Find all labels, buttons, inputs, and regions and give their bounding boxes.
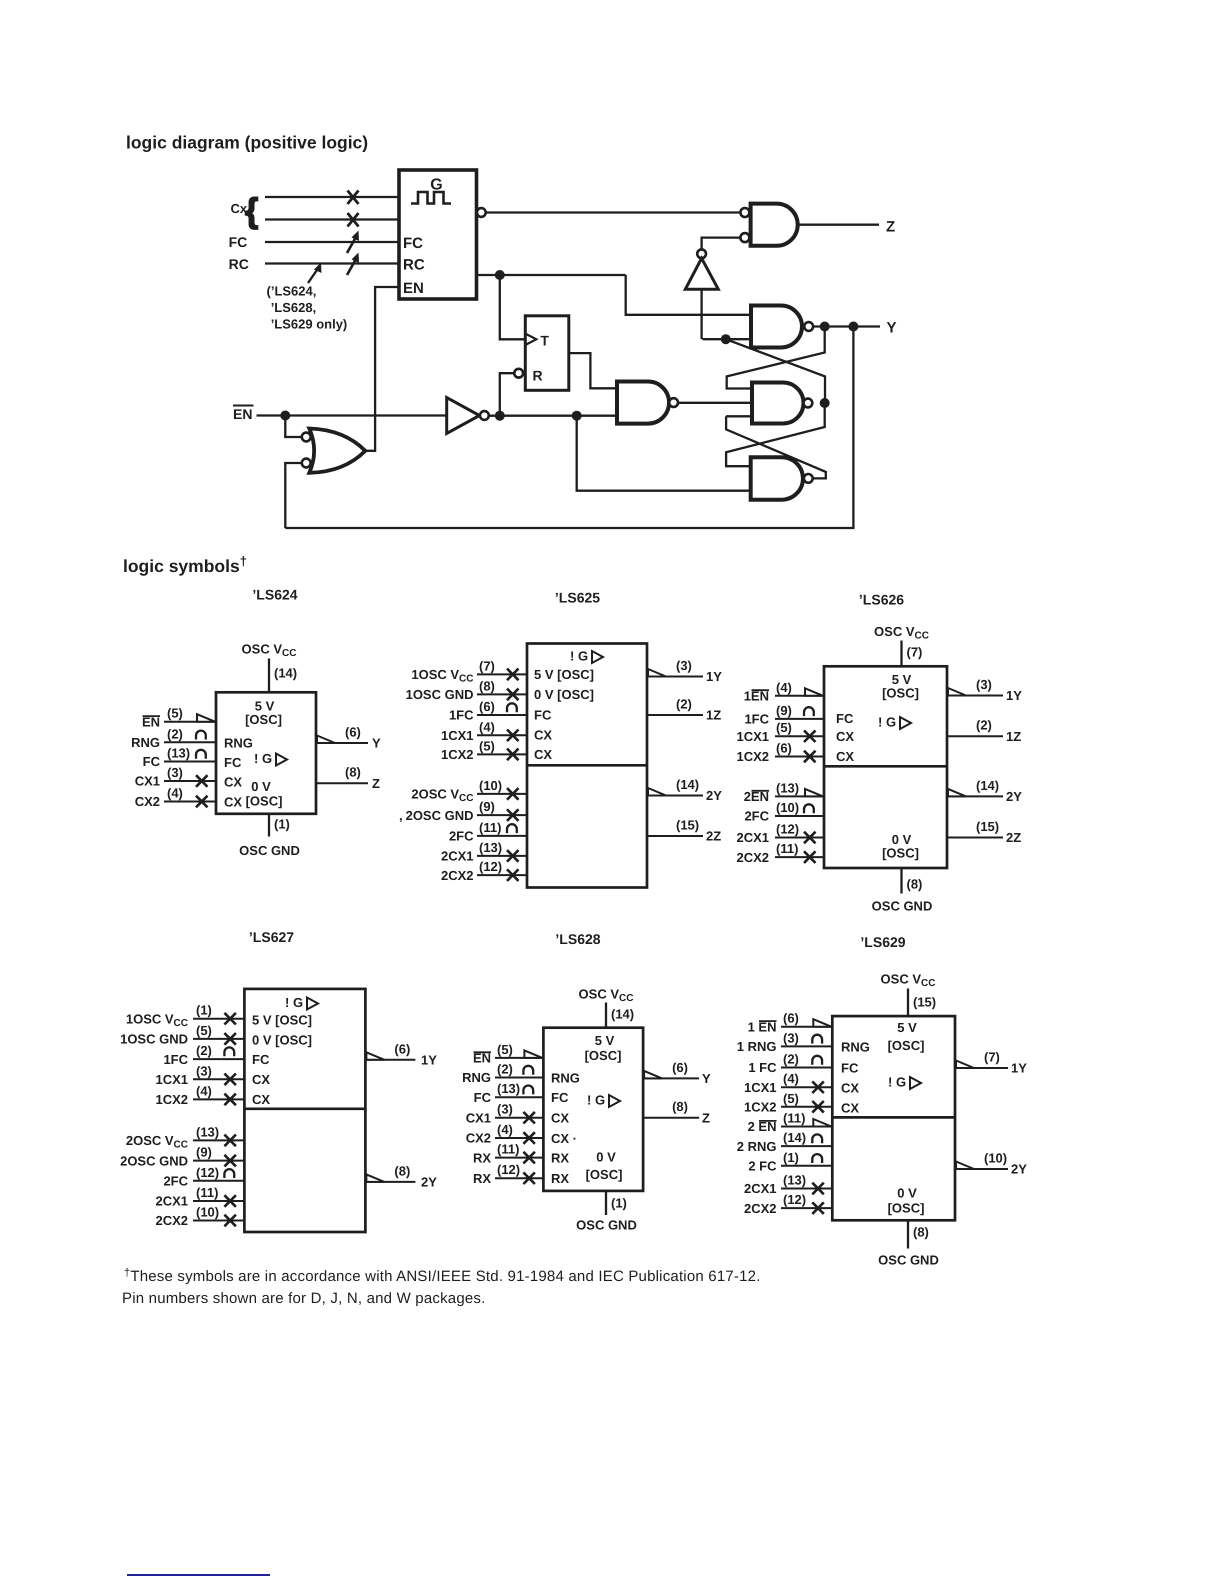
svg-text:(7): (7) [479,658,495,673]
svg-text:2CX1: 2CX1 [441,849,474,864]
svg-text:(13): (13) [783,1173,806,1188]
svg-text:! G: ! G [587,1093,605,1108]
svg-text:[OSC]: [OSC] [888,1201,925,1216]
LS627 divider [244,1107,365,1110]
svg-text:1CX2: 1CX2 [736,749,769,764]
wire Z output [798,224,879,226]
LS624 pin (13) FC [164,761,216,763]
NOR input 2 bubble [302,459,311,468]
svg-text:1CX1: 1CX1 [441,728,474,743]
svg-text:(6): (6) [345,725,361,740]
svg-text:R: R [533,368,543,384]
svg-text:’LS625: ’LS625 [555,590,600,606]
svg-text:5 V [OSC]: 5 V [OSC] [252,1013,312,1028]
svg-text:(2): (2) [783,1052,799,1067]
svg-text:CX: CX [551,1111,569,1126]
svg-text:(14): (14) [783,1130,806,1145]
svg-text:2FC: 2FC [449,829,474,844]
svg-text:[OSC]: [OSC] [882,846,919,861]
svg-text:(11): (11) [196,1185,218,1200]
LS628 pin (13) FC [495,1096,543,1098]
svg-text:2Y: 2Y [1006,789,1022,804]
logic symbol LS626 [736,592,1022,914]
svg-text:(5): (5) [776,720,792,735]
LS626 pin (14) output 2Y [947,795,1003,797]
svg-text:(10): (10) [196,1205,219,1220]
svg-text:1 RNG: 1 RNG [737,1039,777,1054]
wire FC [265,241,399,243]
LS624 box [216,692,316,814]
svg-text:RX: RX [473,1171,491,1186]
svg-text:(4): (4) [196,1083,212,1098]
node dot C (to bottom NAND) [572,411,582,421]
svg-text:(4): (4) [167,786,183,801]
wire EN [257,414,447,416]
LS626 pin (13) 2EN [775,795,824,797]
wire down to bottom NAND G6 input [577,416,751,491]
LS628 pin (5) EN [495,1057,543,1059]
LS627 pin (3) 1CX1 [193,1078,244,1080]
svg-text:(8): (8) [913,1225,929,1240]
wire NOR input 2 from feedback [285,463,301,528]
svg-text:1CX2: 1CX2 [744,1100,777,1115]
svg-text:[OSC]: [OSC] [586,1167,623,1182]
NAND gate G5 (middle) [752,383,804,424]
svg-text:CX: CX [836,749,854,764]
svg-text:(10): (10) [479,778,502,793]
LS627 pin (6) output 1Y [365,1059,415,1061]
logic symbol LS627 [120,929,437,1232]
LS626 OSC VCC pin [900,641,902,667]
svg-text:(2): (2) [167,726,183,741]
svg-text:(6): (6) [672,1060,688,1075]
node dot G5 out [820,398,830,408]
svg-text:2OSC GND: 2OSC GND [120,1153,188,1168]
wire Y output [813,325,880,327]
LS626 OSC GND pin [900,868,902,894]
svg-text:(5): (5) [783,1091,799,1106]
LS629 pin (7) output 1Y [955,1067,1008,1069]
svg-text:CX: CX [841,1101,859,1116]
svg-text:2CX1: 2CX1 [736,830,769,845]
page footer rule (blue) [127,1574,270,1576]
svg-text:2CX1: 2CX1 [744,1181,777,1196]
LS629 pin (14) 2 RNG [781,1145,832,1147]
svg-text:(15): (15) [976,819,999,834]
svg-text:RNG: RNG [841,1040,870,1055]
svg-text:0 V [OSC]: 0 V [OSC] [252,1033,312,1048]
svg-text:CX2: CX2 [135,794,160,809]
LS629 pin (13) 2CX1 [781,1188,832,1190]
LS626 pin (11) 2CX2 [775,856,824,858]
svg-text:(8): (8) [345,765,361,780]
LS627 pin (13) 2OSC V|CC [193,1139,244,1141]
VCO box U1 [399,170,477,299]
svg-text:1CX1: 1CX1 [736,729,769,744]
LS626 pin (15) output 2Z [947,837,1003,839]
LS626 pin (10) 2FC [775,815,824,817]
svg-text:1CX1: 1CX1 [155,1072,188,1087]
LS625 pin (10) 2OSC V|CC [477,793,527,795]
svg-text:FC: FC [474,1090,492,1105]
node dot Y2 [848,322,858,332]
svg-text:[OSC]: [OSC] [585,1048,622,1063]
svg-text:(3): (3) [783,1030,799,1045]
LS628 OSC VCC pin [605,1003,607,1028]
svg-text:(1): (1) [196,1003,212,1018]
svg-text:2FC: 2FC [744,809,769,824]
svg-text:Y: Y [887,320,897,337]
svg-text:(12): (12) [776,822,799,837]
svg-text:CX: CX [252,1092,270,1107]
svg-text:{: { [245,192,258,230]
LS629 divider [832,1116,955,1119]
svg-text:FC: FC [403,235,423,252]
NOR gate body [309,429,365,473]
LS624 pin (2) RNG [164,741,216,743]
LS624 pin (8) output Z [316,782,368,784]
svg-text:Z: Z [886,219,895,236]
LS624 OSC VCC pin [268,659,270,693]
svg-text:FC: FC [534,708,552,723]
svg-text:(14): (14) [274,666,297,681]
LS626 box [824,666,947,868]
svg-text:RC: RC [403,257,425,274]
node dot Y1 [820,322,830,332]
svg-text:(2): (2) [676,697,692,712]
svg-text:(3): (3) [976,677,992,692]
svg-text:(5): (5) [196,1023,212,1038]
svg-text:FC: FC [229,234,248,250]
LS627 pin (2) 1FC [193,1058,244,1060]
svg-text:2CX1: 2CX1 [155,1194,188,1209]
LS625 pin (7) 1OSC V|CC [477,673,527,675]
LS629 OSC GND pin [907,1220,909,1248]
svg-text:(12): (12) [783,1192,806,1207]
LS625 pin (2) output 1Z [647,714,703,716]
svg-text:(5): (5) [497,1042,513,1057]
svg-text:(6): (6) [394,1041,410,1056]
LS628 pin (3) CX1 [495,1117,543,1119]
wire G4 lower input [703,338,752,340]
LS626 pin (9) 1FC [775,718,824,720]
svg-text:logic diagram (positive logic): logic diagram (positive logic) [126,133,368,153]
svg-text:1FC: 1FC [163,1052,188,1067]
svg-text:CX1: CX1 [135,774,160,789]
LS625 divider [527,764,647,767]
LS625 pin (4) 1CX1 [477,734,527,736]
svg-text:(5): (5) [167,706,183,721]
LS628 box [543,1028,643,1191]
svg-text:(13): (13) [776,780,799,795]
LS626 pin (3) output 1Y [947,695,1003,697]
logic symbol LS625 [399,590,722,888]
LS624 pin (5) EN [164,721,216,723]
LS624 OSC GND pin [268,814,270,837]
svg-text:2Y: 2Y [1011,1162,1027,1177]
LS625 pin (8) 1OSC GND [477,693,527,695]
node dot B (R connect) [495,411,505,421]
LS627 pin (1) 1OSC V|CC [193,1018,244,1020]
svg-text:(14): (14) [611,1007,634,1022]
svg-text:(4): (4) [783,1071,799,1086]
LS626 divider [824,765,947,768]
wire Cx1 [265,196,399,198]
svg-text:1FC: 1FC [449,708,474,723]
node dot EN branch [280,411,290,421]
LS625 pin (15) output 2Z [647,835,703,837]
LS627 pin (5) 1OSC GND [193,1038,244,1040]
svg-text:(7): (7) [907,645,923,660]
LS625 box [527,644,647,888]
svg-text:[OSC]: [OSC] [888,1038,925,1053]
LS627 box [244,989,365,1232]
feedback wire from Y to NOR [285,327,853,529]
LS625 pin (13) 2CX1 [477,855,527,857]
svg-text:1CX2: 1CX2 [155,1092,188,1107]
svg-text:2CX2: 2CX2 [155,1213,188,1228]
svg-text:(2): (2) [196,1043,212,1058]
svg-text:5 V [OSC]: 5 V [OSC] [534,667,594,682]
svg-text:RNG: RNG [462,1070,491,1085]
LS625 pin (11) 2FC [477,835,527,837]
svg-text:! G: ! G [570,649,588,664]
svg-text:! G: ! G [254,751,272,766]
svg-text:(4): (4) [497,1122,513,1137]
node dot D on G4 lower input [721,334,731,344]
svg-text:(8): (8) [907,877,923,892]
LS626 pin (6) 1CX2 [775,756,824,758]
svg-text:RX: RX [551,1151,569,1166]
LS629 pin (2) 1 FC [781,1067,832,1069]
LS624 pin (3) CX1 [164,780,216,782]
square wave symbol [411,192,451,204]
svg-text:(1): (1) [783,1150,799,1165]
NAND gate G6 (bottom) [751,457,803,500]
wire inverted EN [489,415,617,417]
svg-text:0 V [OSC]: 0 V [OSC] [534,687,594,702]
svg-text:CX: CX [534,728,552,743]
svg-text:(3): (3) [167,765,183,780]
non-logic X mark on Cx1 [348,191,359,205]
analog slash on RC [347,259,356,275]
svg-text:! G: ! G [285,995,303,1010]
svg-text:RNG: RNG [131,735,160,750]
LS628 pin (2) RNG [495,1077,543,1079]
svg-text:0 V: 0 V [596,1150,616,1165]
svg-text:’LS628: ’LS628 [555,931,600,947]
svg-text:(3): (3) [676,658,692,673]
svg-text:[OSC]: [OSC] [246,794,283,809]
clock wedge on T input [525,334,536,345]
LS629 pin (4) 1CX1 [781,1086,832,1088]
svg-text:RNG: RNG [551,1071,580,1086]
svg-text:FC: FC [841,1061,859,1076]
svg-text:5 V: 5 V [897,1020,917,1035]
wire VCO EN-row output [477,274,626,276]
svg-text:(15): (15) [676,818,699,833]
svg-text:(14): (14) [676,777,699,792]
svg-text:2 FC: 2 FC [748,1159,777,1174]
LS626 pin (4) 1EN [775,695,824,697]
svg-text:RX: RX [473,1150,491,1165]
non-logic X mark on Cx2 [348,213,359,227]
LS629 pin (12) 2CX2 [781,1207,832,1209]
svg-text:FC: FC [551,1090,569,1105]
svg-text:2 RNG: 2 RNG [737,1139,777,1154]
svg-text:(13): (13) [479,840,502,855]
svg-text:1CX2: 1CX2 [441,747,474,762]
svg-text:(9): (9) [196,1145,212,1160]
svg-text:2FC: 2FC [163,1174,188,1189]
svg-text:(12): (12) [196,1165,219,1180]
svg-text:(13): (13) [167,746,190,761]
svg-text:(2): (2) [497,1062,513,1077]
svg-text:FC: FC [224,755,242,770]
svg-text:’LS629 only): ’LS629 only) [271,317,348,332]
svg-text:’LS627: ’LS627 [249,929,294,945]
wire jog down to Y gate top input [626,275,751,315]
svg-text:(9): (9) [479,799,495,814]
svg-text:CX: CX [224,795,242,810]
LS629 pin (3) 1 RNG [781,1045,832,1047]
svg-text:2CX2: 2CX2 [736,850,769,865]
LS629 pin (11) 2 EN [781,1126,832,1128]
svg-text:! G: ! G [888,1075,906,1090]
svg-text:CX: CX [841,1081,859,1096]
svg-text:[OSC]: [OSC] [245,712,282,727]
svg-text:EN: EN [233,406,252,422]
svg-text:1Y: 1Y [1011,1061,1027,1076]
svg-text:CX: CX [534,747,552,762]
wire Cx2 [265,218,399,220]
wire node A down to T input [500,275,526,339]
svg-text:RC: RC [229,256,249,272]
svg-text:(2): (2) [976,718,992,733]
LS625 pin (12) 2CX2 [477,874,527,876]
LS628 pin (12) RX [495,1177,543,1179]
svg-text:1Y: 1Y [706,669,722,684]
svg-text:’LS626: ’LS626 [859,592,904,608]
LS625 pin (5) 1CX2 [477,753,527,755]
svg-text:CX ·: CX · [551,1131,577,1146]
cross-couple lower X wires [726,403,825,466]
svg-text:’LS624: ’LS624 [252,587,297,603]
svg-text:(3): (3) [196,1063,212,1078]
svg-text:T: T [540,333,549,349]
svg-text:(4): (4) [479,719,495,734]
logic symbol LS624 [131,587,381,859]
svg-text:(5): (5) [479,738,495,753]
annotation arrow to RC wire [308,269,318,284]
svg-text:0 V: 0 V [897,1186,917,1201]
svg-text:2CX2: 2CX2 [441,868,474,883]
LS628 pin (6) output Y [643,1077,699,1079]
LS625 pin (6) 1FC [477,714,527,716]
LS629 pin (5) 1CX2 [781,1106,832,1108]
LS624 pin (6) output Y [316,742,368,744]
svg-text:(10): (10) [776,800,799,815]
NAND gate G3 (left) [617,382,669,424]
svg-text:RX: RX [551,1171,569,1186]
svg-text:Z: Z [372,776,380,791]
svg-text:OSC GND: OSC GND [872,899,933,914]
wire R to inverted-EN node [500,373,515,416]
svg-text:1Z: 1Z [1006,729,1021,744]
svg-text:OSC GND: OSC GND [239,843,300,858]
svg-text:CX: CX [224,775,242,790]
inverter U4 (pointing up) [697,249,706,258]
svg-text:FC: FC [252,1052,270,1067]
LS626 pin (5) 1CX1 [775,735,824,737]
wire G3 out to G5 [678,402,752,404]
wire G5 lower input [726,415,752,417]
wire RC [265,262,399,264]
svg-text:5 V: 5 V [595,1033,615,1048]
svg-text:(9): (9) [776,703,792,718]
LS627 pin (12) 2FC [193,1180,244,1182]
LS629 box [832,1016,955,1220]
svg-text:0 V: 0 V [251,779,271,794]
svg-text:(’LS624,: (’LS624, [267,284,317,299]
LS625 pin (9) 2OSC GND [477,814,527,816]
svg-text:1Y: 1Y [421,1053,437,1068]
svg-text:Y: Y [702,1071,711,1086]
svg-text:2CX2: 2CX2 [744,1201,777,1216]
svg-text:CX: CX [252,1072,270,1087]
analog slash on FC [347,237,356,253]
svg-text:(12): (12) [479,859,502,874]
LS629 pin (6) 1 EN [781,1026,832,1028]
svg-text:(12): (12) [497,1162,520,1177]
svg-text:(3): (3) [497,1102,513,1117]
LS624 pin (4) CX2 [164,801,216,803]
NAND gate G4 (Y output) [751,306,802,348]
svg-text:1OSC GND: 1OSC GND [406,687,474,702]
svg-text:1Y: 1Y [1006,688,1022,703]
svg-text:(6): (6) [776,741,792,756]
svg-text:EN: EN [403,280,424,297]
LS627 pin (9) 2OSC GND [193,1160,244,1162]
svg-text:(6): (6) [479,699,495,714]
svg-text:(4): (4) [776,680,792,695]
LS625 pin (3) output 1Y [647,676,703,678]
svg-text:FC: FC [836,711,854,726]
svg-text:2Z: 2Z [1006,830,1021,845]
logic symbol LS628 [462,931,711,1233]
svg-text:1OSC GND: 1OSC GND [120,1032,188,1047]
svg-text:logic symbols†: logic symbols† [123,554,247,577]
svg-text:CX2: CX2 [466,1131,491,1146]
LS629 OSC VCC pin [907,989,909,1017]
svg-text:(11): (11) [783,1111,805,1126]
LS627 pin (11) 2CX1 [193,1200,244,1202]
LS628 pin (4) CX2 [495,1137,543,1139]
LS627 pin (4) 1CX2 [193,1098,244,1100]
svg-text:’LS628,: ’LS628, [271,300,317,315]
cross-couple upper X wires [727,327,825,389]
svg-text:1CX1: 1CX1 [744,1080,777,1095]
svg-text:(10): (10) [984,1151,1007,1166]
LS627 pin (10) 2CX2 [193,1220,244,1222]
wire U4 input [700,289,702,339]
AND gate G2 (Z output) [751,204,798,246]
svg-text:’LS629: ’LS629 [860,934,905,950]
svg-text:(11): (11) [776,841,798,856]
svg-text:(14): (14) [976,778,999,793]
node dot A [495,270,505,280]
wire T/R output to NAND G3 [569,353,617,388]
